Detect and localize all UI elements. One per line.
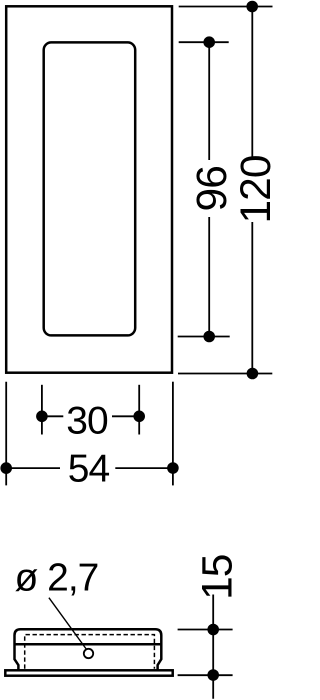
- svg-text:96: 96: [189, 166, 236, 211]
- dimension 15: dimension line: [212, 595, 214, 699]
- side view screw hole circle: [84, 649, 93, 658]
- side view hidden recess dashed outline: [25, 635, 155, 669]
- svg-text:120: 120: [233, 156, 274, 224]
- dimension 54: right dot terminator: [167, 462, 179, 474]
- side view front plate: [5, 670, 172, 675]
- dimension 54: left extension line: [5, 382, 7, 486]
- dimension 120: dimension line lower segment: [251, 222, 253, 374]
- leader line from label to hole: [49, 598, 86, 649]
- svg-text:15: 15: [195, 555, 242, 600]
- dimension 54: left dot terminator: [0, 462, 12, 474]
- dimension 54: dimension line right segment: [115, 467, 173, 469]
- front view inner recess rounded rectangle: [44, 42, 136, 335]
- dimension 54: right extension line: [172, 382, 174, 486]
- dimension 15: bottom extension line: [178, 674, 233, 676]
- dimension 96: bottom extension line: [178, 336, 230, 338]
- dimension 30: right extension line: [138, 385, 140, 435]
- dimension 96: dimension line lower segment: [208, 217, 210, 337]
- svg-text:ø 2,7: ø 2,7: [15, 557, 99, 600]
- dimension 96: bottom dot terminator: [203, 331, 215, 343]
- dimension 120: top dot terminator: [246, 1, 258, 13]
- dimension 30: left extension line: [41, 385, 43, 435]
- dimension 30: dimension line right segment: [112, 415, 139, 417]
- dimension 96: top extension line: [179, 41, 229, 43]
- dimension 30: dimension line left segment: [42, 415, 63, 417]
- front view outer plate rectangle: [6, 6, 172, 372]
- dimension 15: bottom dot terminator: [207, 669, 219, 681]
- side view rim edge line: [15, 643, 162, 646]
- dimension 54: dimension line left segment: [6, 467, 60, 469]
- dimension 120: bottom dot terminator: [247, 368, 259, 380]
- dimension 30: left dot terminator: [36, 411, 48, 423]
- svg-text:54: 54: [68, 448, 110, 491]
- dimension 120: top extension line: [179, 6, 273, 8]
- side view body outline: [15, 629, 162, 670]
- svg-text:30: 30: [66, 399, 108, 442]
- dimension 120: dimension line upper segment: [251, 7, 253, 158]
- dimension 96: top dot terminator: [203, 36, 215, 48]
- dimension 30: right dot terminator: [133, 411, 145, 423]
- dimension 15: top extension line: [178, 629, 233, 631]
- dimension 96: dimension line upper segment: [208, 42, 210, 160]
- dimension 120: bottom extension line: [178, 373, 272, 375]
- dimension 15: top dot terminator: [207, 624, 219, 636]
